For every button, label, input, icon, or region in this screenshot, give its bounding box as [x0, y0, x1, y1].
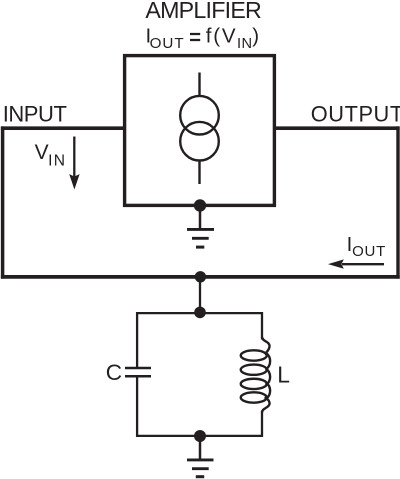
svg-text:OUTPUT: OUTPUT — [311, 102, 400, 127]
svg-text:L: L — [277, 361, 290, 387]
svg-text:INPUT: INPUT — [3, 102, 67, 127]
svg-text:C: C — [106, 360, 122, 385]
svg-text:AMPLIFIER: AMPLIFIER — [145, 0, 261, 23]
